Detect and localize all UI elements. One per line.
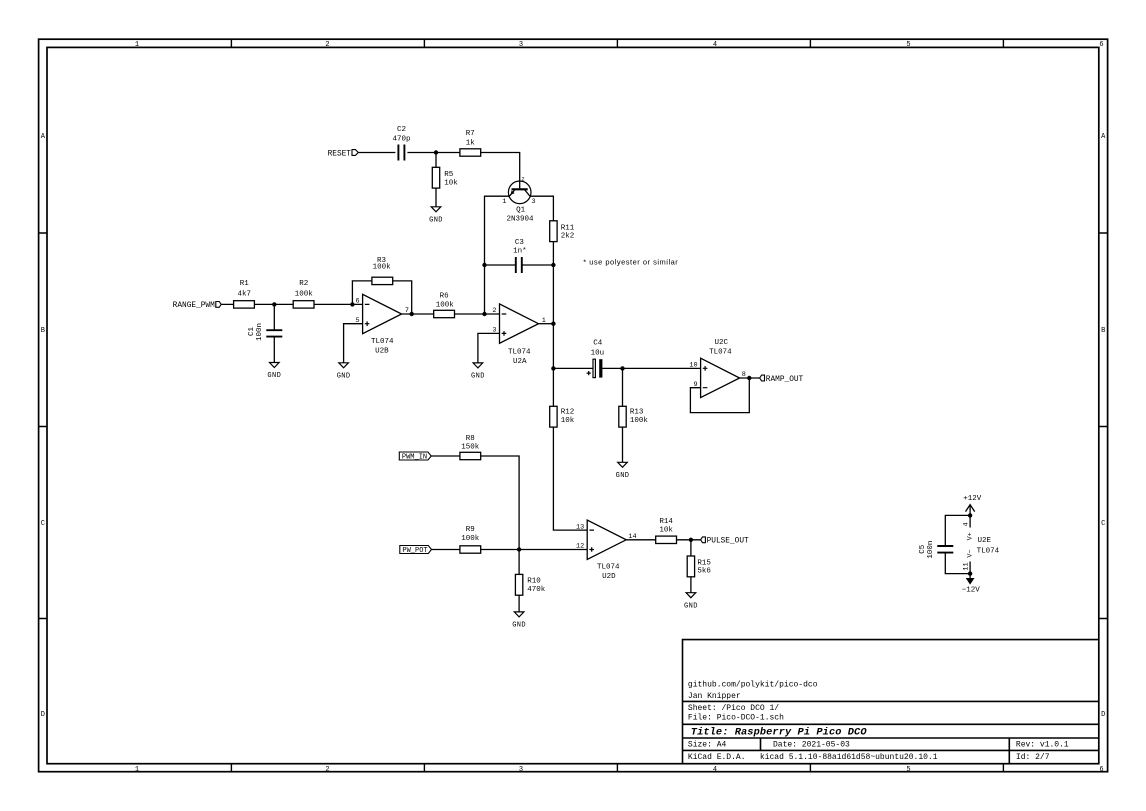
svg-text:+12V: +12V	[963, 495, 982, 503]
svg-text:2k2: 2k2	[561, 233, 575, 241]
svg-text:14: 14	[628, 533, 636, 541]
svg-text:150k: 150k	[461, 444, 480, 452]
svg-text:10u: 10u	[591, 350, 605, 358]
svg-text:R12: R12	[561, 408, 575, 416]
svg-text:GND: GND	[512, 622, 526, 630]
svg-text:10k: 10k	[659, 526, 673, 534]
svg-text:C4: C4	[593, 340, 603, 348]
svg-text:R5: R5	[444, 171, 454, 179]
svg-text:Title: Raspberry Pi Pico DCO: Title: Raspberry Pi Pico DCO	[691, 726, 868, 738]
svg-text:Rev: v1.0.1: Rev: v1.0.1	[1016, 741, 1069, 750]
svg-text:7: 7	[405, 307, 409, 315]
svg-text:D: D	[1101, 711, 1105, 719]
svg-text:100n: 100n	[256, 323, 264, 341]
svg-text:KiCad E.D.A. kicad 5.1.10-88: KiCad E.D.A. kicad 5.1.10-88a1d61d58~ubu…	[688, 753, 938, 762]
svg-text:C5: C5	[919, 544, 927, 554]
svg-text:R1: R1	[240, 280, 250, 288]
svg-text:File: Pico-DCO-1.sch: File: Pico-DCO-1.sch	[688, 713, 784, 722]
svg-text:U2E: U2E	[978, 537, 992, 545]
svg-text:TL074: TL074	[508, 349, 531, 357]
svg-text:R13: R13	[630, 408, 644, 416]
svg-text:10: 10	[689, 362, 697, 370]
svg-text:C2: C2	[397, 126, 406, 134]
svg-text:1k: 1k	[466, 139, 476, 147]
svg-text:* use polyester or similar: * use polyester or similar	[583, 257, 678, 266]
svg-text:5: 5	[906, 766, 910, 774]
svg-text:8: 8	[742, 371, 746, 379]
svg-text:GND: GND	[337, 372, 351, 380]
svg-text:470p: 470p	[392, 135, 410, 143]
svg-text:U2A: U2A	[513, 358, 527, 366]
svg-text:100k: 100k	[630, 417, 649, 425]
svg-text:3: 3	[519, 766, 523, 774]
svg-text:GND: GND	[267, 372, 281, 380]
svg-text:5: 5	[906, 41, 910, 49]
svg-text:10k: 10k	[561, 417, 575, 425]
svg-text:Jan Knipper: Jan Knipper	[688, 692, 741, 701]
svg-text:100k: 100k	[295, 290, 314, 298]
svg-text:D: D	[41, 711, 45, 719]
svg-text:1: 1	[135, 766, 139, 774]
svg-text:100k: 100k	[373, 264, 392, 272]
svg-text:RANGE_PWM: RANGE_PWM	[173, 302, 215, 310]
svg-text:V−: V−	[967, 550, 975, 558]
svg-text:R6: R6	[440, 293, 450, 301]
svg-text:U2C: U2C	[715, 339, 729, 347]
svg-text:R11: R11	[561, 225, 575, 233]
svg-text:R7: R7	[466, 130, 475, 138]
svg-text:3: 3	[492, 327, 496, 335]
svg-text:6: 6	[1099, 41, 1103, 49]
svg-text:Id: 2/7: Id: 2/7	[1016, 753, 1050, 762]
svg-text:6: 6	[1099, 766, 1103, 774]
svg-text:U2B: U2B	[375, 348, 389, 356]
svg-text:5: 5	[356, 317, 360, 325]
svg-text:2: 2	[522, 176, 525, 182]
svg-text:1: 1	[135, 41, 139, 49]
svg-text:13: 13	[576, 523, 584, 531]
svg-text:R14: R14	[659, 518, 673, 526]
svg-text:3: 3	[519, 41, 523, 49]
svg-text:GND: GND	[616, 472, 630, 480]
svg-text:2: 2	[325, 41, 329, 49]
svg-text:U2D: U2D	[602, 573, 616, 581]
svg-text:1: 1	[502, 198, 506, 206]
svg-text:RESET: RESET	[328, 150, 352, 158]
svg-text:10k: 10k	[444, 179, 458, 187]
svg-text:R15: R15	[697, 559, 711, 567]
svg-text:9: 9	[694, 381, 698, 389]
svg-text:12: 12	[576, 543, 584, 551]
svg-text:100k: 100k	[436, 302, 455, 310]
svg-text:B: B	[41, 327, 45, 335]
svg-text:4: 4	[963, 522, 971, 526]
svg-text:Q1: Q1	[516, 206, 526, 214]
svg-text:100k: 100k	[461, 535, 480, 543]
svg-text:11: 11	[963, 562, 971, 570]
svg-text:PULSE_OUT: PULSE_OUT	[707, 538, 749, 546]
svg-text:R9: R9	[466, 526, 475, 534]
svg-text:2N3904: 2N3904	[506, 215, 534, 223]
svg-text:R10: R10	[527, 577, 541, 585]
svg-text:TL074: TL074	[597, 563, 620, 571]
svg-text:C: C	[1101, 520, 1105, 528]
svg-text:TL074: TL074	[371, 338, 394, 346]
svg-text:2: 2	[492, 307, 496, 315]
svg-text:github.com/polykit/pico-dco: github.com/polykit/pico-dco	[688, 680, 818, 689]
svg-text:B: B	[1101, 327, 1105, 335]
svg-text:C1: C1	[248, 327, 256, 337]
svg-text:1: 1	[542, 317, 546, 325]
svg-text:5k6: 5k6	[697, 568, 711, 576]
svg-text:6: 6	[356, 298, 360, 306]
svg-text:R2: R2	[299, 280, 308, 288]
svg-text:−12V: −12V	[962, 587, 981, 595]
svg-text:1n*: 1n*	[513, 248, 527, 256]
svg-text:Sheet: /Pico DCO 1/: Sheet: /Pico DCO 1/	[688, 704, 779, 713]
svg-text:100n: 100n	[927, 541, 935, 559]
svg-text:PWM_IN: PWM_IN	[402, 454, 427, 462]
svg-text:C: C	[41, 520, 45, 528]
svg-text:2: 2	[325, 766, 329, 774]
svg-text:3: 3	[532, 198, 536, 206]
svg-text:V+: V+	[967, 532, 975, 540]
svg-text:4: 4	[713, 766, 717, 774]
svg-text:Size: A4: Size: A4	[688, 741, 727, 750]
svg-text:GND: GND	[429, 216, 443, 224]
svg-text:GND: GND	[684, 602, 698, 610]
svg-text:4k7: 4k7	[238, 290, 252, 298]
svg-text:GND: GND	[471, 373, 485, 381]
svg-text:RAMP_OUT: RAMP_OUT	[766, 376, 804, 384]
svg-text:TL074: TL074	[977, 547, 1000, 555]
svg-text:C3: C3	[515, 239, 525, 247]
svg-text:R8: R8	[466, 435, 475, 443]
svg-text:TL074: TL074	[709, 349, 732, 357]
svg-text:4: 4	[713, 41, 717, 49]
svg-text:Date: 2021-05-03: Date: 2021-05-03	[773, 741, 850, 750]
svg-text:PW_POT: PW_POT	[402, 547, 427, 555]
svg-text:470k: 470k	[527, 586, 546, 594]
